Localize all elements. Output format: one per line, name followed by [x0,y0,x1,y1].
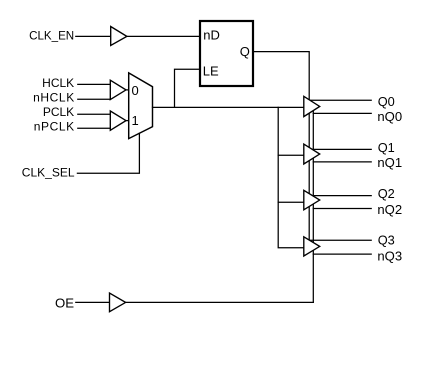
node HCLK [42,76,74,90]
node Q2 [378,186,395,201]
node nPCLK [34,120,75,134]
wire HCLK buffer to mux input 0 [126,89,129,91]
wire Q0 output [305,99,371,101]
svg-text:nD: nD [203,27,220,42]
wire OE enable bus B [312,111,314,303]
mux input label 1 [131,113,138,128]
node Q3 [378,232,395,247]
wire nQ2 output [313,208,371,210]
wire nPCLK lead [78,127,111,129]
svg-text:Q0: Q0 [378,94,395,109]
svg-text:nPCLK: nPCLK [34,120,75,134]
node nQ0 [377,109,402,124]
latch transparent latch [200,21,253,86]
node Q0 [378,94,395,109]
wire OE lead [76,301,110,303]
buffer output driver Q2 [304,190,320,210]
svg-text:Q3: Q3 [378,232,395,247]
node OE [55,296,74,311]
mux clock select multiplexer [129,73,153,139]
wire nQ3 output [313,253,371,255]
svg-text:Q2: Q2 [378,186,395,201]
svg-text:OE: OE [55,296,74,311]
wire PCLK buffer to mux input 1 [126,120,129,122]
wire stub to output buffer Q2 [278,201,304,203]
wire Q1 output [305,148,371,150]
svg-text:Q1: Q1 [378,140,395,155]
wire buffer output to latch nD [127,35,199,37]
wire clock input bus riser [278,107,304,247]
wire HCLK lead [78,83,111,85]
svg-text:nQ3: nQ3 [377,248,402,263]
wire stub to output buffer Q1 [278,154,304,156]
svg-text:nQ1: nQ1 [377,155,402,170]
wire mux output to output buffers [153,106,305,108]
wire nHCLK lead [78,98,111,100]
svg-text:nHCLK: nHCLK [33,90,75,104]
wire Q2 output [305,195,371,197]
node nQ1 [377,155,402,170]
node Q1 [378,140,395,155]
svg-text:HCLK: HCLK [42,76,74,90]
svg-text:CLK_SEL: CLK_SEL [22,165,75,179]
buffer output driver Q0 [304,96,320,116]
node nQ3 [377,248,402,263]
wire CLK_EN lead [76,35,111,37]
wire Q3 output [305,239,371,241]
svg-text:nQ0: nQ0 [377,109,402,124]
svg-text:Q: Q [240,44,250,59]
buffer HCLK differential input buffer [110,80,126,99]
node nQ2 [377,202,402,217]
node nHCLK [33,90,75,104]
latch pin label LE [203,64,219,79]
svg-text:LE: LE [203,64,219,79]
svg-text:nQ2: nQ2 [377,202,402,217]
svg-text:0: 0 [131,83,138,98]
wire nQ1 output [313,161,371,163]
wire OE buffer output to enable bus B [126,301,314,303]
latch pin label Q [240,44,250,59]
buffer output driver Q1 [304,144,320,164]
node CLK_EN [29,29,74,42]
buffer OE input buffer [110,293,126,312]
wire PCLK lead [78,113,111,115]
svg-text:CLK_EN: CLK_EN [29,29,74,42]
svg-text:PCLK: PCLK [43,105,74,119]
svg-text:1: 1 [131,113,138,128]
buffer CLK_EN input buffer [111,27,127,46]
wire LE branch from mux output [175,69,200,107]
buffer output driver Q3 [304,237,320,256]
mux input label 0 [131,83,138,98]
wire latch Q output to enable bus A [253,52,309,241]
node PCLK [43,105,74,119]
buffer PCLK differential input buffer [110,111,126,130]
wire CLK_SEL lead and riser to mux select [77,133,139,173]
latch pin label nD [203,27,220,42]
wire nQ0 output [313,112,371,114]
node CLK_SEL [22,165,75,179]
